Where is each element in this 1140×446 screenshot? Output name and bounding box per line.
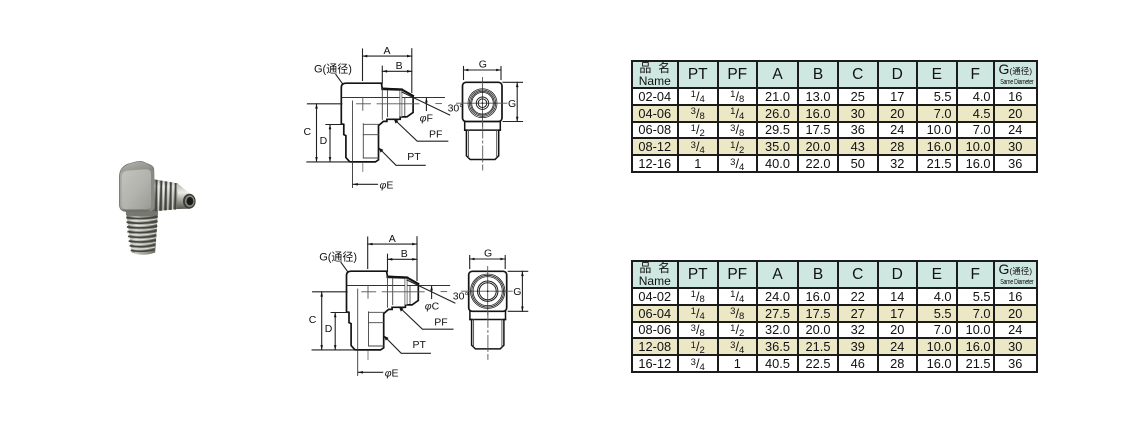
dimension G top 2	[470, 256, 506, 269]
svg-text:PT: PT	[407, 151, 421, 163]
photo: flare arm threads	[152, 179, 179, 212]
label PF with leader 2	[399, 307, 453, 329]
dimension phiF	[425, 98, 427, 110]
right view crosshair 2	[462, 267, 513, 316]
photo: flare nose cone	[178, 184, 196, 210]
svg-text:C: C	[309, 314, 317, 326]
svg-text:D: D	[325, 323, 333, 335]
svg-text:A: A	[389, 233, 396, 245]
svg-text:φF: φF	[420, 113, 433, 125]
body outline	[341, 83, 413, 162]
svg-text:φE: φE	[380, 179, 394, 191]
dimension B 2	[388, 254, 418, 272]
right view square body 2	[469, 271, 507, 311]
svg-text:G(通径): G(通径)	[314, 63, 352, 76]
PF port thread lines 2	[388, 277, 411, 307]
photo: threaded stud (down)	[126, 210, 158, 255]
photo: block bottom shade	[121, 210, 154, 212]
dimension G right 2	[508, 271, 528, 311]
flare cone edge 2	[407, 278, 418, 284]
data table 2	[631, 260, 1038, 373]
svg-text:30°: 30°	[453, 291, 469, 303]
PT centerline dash	[362, 164, 364, 172]
flare cone edge	[402, 90, 413, 96]
svg-text:PF: PF	[434, 316, 447, 328]
30 degree cone line	[402, 92, 450, 115]
photo: nose end face	[183, 194, 196, 209]
svg-text:φE: φE	[385, 367, 399, 379]
photo: block top facet	[121, 162, 152, 172]
right view lower cylinder 2	[470, 311, 506, 349]
photo: block body	[119, 161, 154, 211]
svg-text:PF: PF	[429, 128, 442, 140]
svg-text:G: G	[513, 286, 521, 298]
right view crosshair	[457, 78, 508, 127]
body outline 2	[347, 271, 419, 350]
photo: block front face	[122, 169, 152, 209]
data table 1	[631, 60, 1038, 173]
label PF with leader	[394, 119, 448, 141]
port centerline horizontal 2	[362, 285, 447, 298]
photo: stud top shadow collar	[126, 210, 158, 217]
dimension D 2	[331, 313, 347, 350]
svg-text:D: D	[320, 135, 328, 147]
dimension phiE 2	[357, 350, 359, 376]
leader G(tongjing)	[336, 75, 343, 85]
svg-text:A: A	[384, 45, 391, 57]
dimension B	[382, 66, 412, 84]
dimension phiC	[431, 286, 433, 298]
PT port inner lines 2	[358, 289, 384, 350]
dimension A 2	[368, 237, 417, 281]
svg-text:B: B	[401, 248, 408, 260]
PT port inner lines	[353, 101, 379, 162]
leader G(tongjing) 2	[341, 263, 348, 273]
photo: bore hole	[187, 197, 194, 205]
svg-text:B: B	[396, 60, 403, 72]
right view thread circles	[468, 89, 497, 118]
right view thread circles 2 (larger)	[471, 274, 505, 308]
svg-text:30°: 30°	[448, 103, 464, 115]
svg-text:C: C	[304, 126, 312, 138]
dimension C	[307, 104, 351, 162]
dimension phiE	[352, 162, 354, 188]
photo: block right edge shade	[149, 169, 155, 211]
dimension D	[326, 125, 342, 162]
dimension A	[363, 49, 412, 93]
right view square body	[463, 82, 503, 121]
phiF extension line (flare top)	[342, 97, 444, 99]
PT centerline dash 2	[367, 352, 369, 360]
svg-text:G(通径): G(通径)	[319, 251, 357, 264]
svg-text:G: G	[508, 98, 516, 110]
photo: elbow fitting photograph	[119, 161, 195, 254]
dimension G top	[464, 67, 502, 80]
label PT with leader 2	[384, 336, 430, 353]
right view lower cylinder	[465, 122, 501, 160]
phiC extension line 2	[347, 285, 449, 287]
svg-text:φC: φC	[425, 301, 440, 313]
dimension C 2	[312, 292, 356, 350]
svg-text:PT: PT	[413, 339, 427, 351]
nut top face thick band	[383, 88, 402, 91]
svg-text:G: G	[484, 248, 492, 260]
dimension G right	[503, 82, 523, 121]
nut top face thick band 2	[388, 276, 407, 279]
svg-text:G: G	[479, 59, 487, 71]
port centerline horizontal	[357, 97, 442, 110]
photo: stud thread ribs	[126, 217, 158, 252]
PF port thread lines	[382, 89, 405, 119]
right view vertical centerline dash-dot 2	[487, 311, 489, 359]
label PT with leader	[379, 148, 425, 165]
right view vertical centerline dash-dot	[482, 122, 484, 170]
30 degree cone line 2	[407, 280, 455, 303]
